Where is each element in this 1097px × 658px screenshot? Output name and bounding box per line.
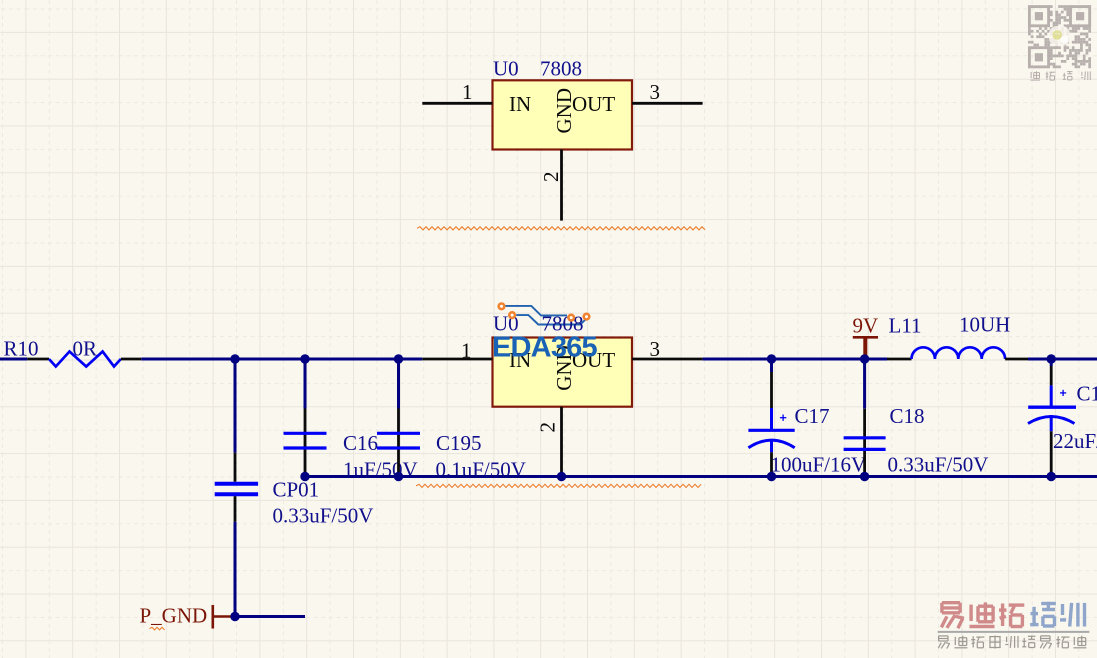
wire: U0 out to 9V node — [703, 358, 887, 361]
junction on main rail at C16 — [300, 354, 309, 363]
designator C19 — [1077, 382, 1097, 406]
svg-text:EDA365: EDA365 — [492, 332, 597, 364]
svg-text:CP01: CP01 — [273, 478, 320, 502]
regulator U1 (7808) top: body — [493, 80, 633, 149]
value 100uF/16V — [771, 452, 867, 476]
value 10UH — [959, 313, 1010, 337]
pin number 3 (bottom) — [650, 337, 661, 361]
watermark EDA365 text — [492, 332, 597, 364]
value 7808 (top) — [540, 57, 582, 81]
svg-text:0.33uF/50V: 0.33uF/50V — [888, 452, 989, 476]
pin name GND (bottom, rotated) — [552, 345, 576, 391]
svg-text:3: 3 — [650, 80, 661, 104]
pin 2 wire (GND, top) — [560, 150, 563, 221]
designator U0 (top) — [493, 57, 519, 81]
watermark QR code (WeChat) — [1028, 5, 1091, 68]
pin 2 wire (GND, bottom) — [560, 407, 563, 477]
designator L11 — [889, 313, 922, 337]
svg-text:3: 3 — [650, 337, 661, 361]
value 0.33uF/50V (C18) — [888, 452, 989, 476]
regulator U0 (7808) bottom: body — [493, 338, 633, 407]
svg-text:9V: 9V — [853, 313, 879, 337]
capacitor C18 — [844, 359, 886, 477]
junction on main rail at CP01 — [230, 354, 239, 363]
svg-text:IN: IN — [509, 92, 531, 116]
svg-text:OUT: OUT — [572, 92, 615, 116]
svg-text:10UH: 10UH — [959, 313, 1010, 337]
svg-text:C195: C195 — [436, 431, 482, 455]
svg-text:0.33uF/50V: 0.33uF/50V — [273, 504, 374, 528]
pin 3 wire (OUT, bottom) — [632, 358, 703, 361]
power port 9V — [853, 313, 879, 359]
value 22uF/25V — [1053, 429, 1097, 453]
inductor L11 — [887, 347, 1028, 359]
svg-text:L11: L11 — [889, 313, 922, 337]
junction on rail at C18 — [860, 472, 869, 481]
svg-text:C17: C17 — [795, 404, 830, 428]
svg-text:22uF/25V: 22uF/25V — [1053, 429, 1097, 453]
svg-text:2: 2 — [536, 422, 560, 433]
pin 1 wire (IN, top) — [422, 102, 492, 105]
value 1uF/50V — [343, 457, 418, 481]
capacitor C195 — [377, 359, 420, 477]
designator C16 — [343, 431, 378, 455]
wire: left edge to R10 — [0, 358, 27, 361]
pin number 1 (top) — [462, 80, 473, 104]
pin number 2 (top, rotated) — [539, 172, 563, 183]
pin 1 wire (IN, bottom) — [422, 358, 492, 361]
svg-text:7808: 7808 — [540, 57, 582, 81]
svg-text:C18: C18 — [890, 404, 925, 428]
pin name IN (bottom) — [509, 348, 531, 372]
svg-text:100uF/16V: 100uF/16V — [771, 452, 867, 476]
svg-text:U0: U0 — [493, 57, 519, 81]
junction on rail at C17 — [767, 472, 776, 481]
designator R10 — [4, 337, 39, 361]
pin number 2 (bottom, rotated) — [536, 422, 560, 433]
designator CP01 — [273, 478, 320, 502]
svg-text:1: 1 — [461, 338, 472, 362]
junction at C19 top — [1047, 354, 1056, 363]
watermark EDA365 logo traces — [505, 306, 587, 325]
designator C195 — [436, 431, 482, 455]
junction on rail at C19 — [1047, 472, 1056, 481]
value 0R — [73, 337, 98, 361]
pin name GND (top, rotated) — [552, 88, 576, 134]
resistor R10 — [27, 352, 141, 367]
ERC squiggle marker (top) — [417, 227, 705, 230]
capacitor C17 (polarized) — [748, 359, 794, 477]
junction on rail at C16 — [300, 472, 309, 481]
watermark logo underline — [938, 631, 1090, 633]
pin number 3 (top) — [650, 80, 661, 104]
pin number 1 (bottom) — [461, 338, 472, 362]
designator C18 — [890, 404, 925, 428]
watermark logo tagline 射频和天线设计专家 — [938, 636, 1086, 649]
svg-text:C19: C19 — [1077, 382, 1097, 406]
capacitor C19 (polarized) — [1028, 359, 1076, 477]
value 0.33uF/50V (CP01) — [273, 504, 374, 528]
junction on main rail at C195 — [394, 354, 403, 363]
svg-text:C16: C16 — [343, 431, 378, 455]
capacitor CP01 — [215, 359, 258, 617]
junction on rail at U0 GND — [557, 472, 566, 481]
junction on rail at C195 — [394, 472, 403, 481]
value 0.1uF/50V — [436, 457, 526, 481]
power port P_GND — [140, 604, 232, 629]
svg-text:P_GND: P_GND — [140, 604, 208, 628]
watermark EDA365 logo pads — [499, 304, 590, 321]
pin name IN (top) — [509, 92, 531, 116]
junction at P_GND / CP01 bottom — [230, 612, 239, 621]
designator U0 (bottom) — [493, 312, 519, 336]
pin name OUT (top) — [572, 92, 615, 116]
svg-text:2: 2 — [539, 172, 563, 183]
junction at C17 top — [767, 354, 776, 363]
lower GND rail wire — [305, 475, 1097, 478]
value 7808 (bottom) — [542, 312, 584, 336]
pin name OUT (bottom) — [572, 348, 615, 372]
junction at 9V / C18 top — [860, 354, 869, 363]
P_GND rail wire — [231, 615, 305, 618]
svg-text:R10: R10 — [4, 337, 39, 361]
svg-text:1: 1 — [462, 80, 473, 104]
ERC mini squiggle under P_GND — [150, 627, 165, 630]
wire: R10 to U0 pin1 (main rail) — [141, 358, 422, 361]
designator C17 — [795, 404, 830, 428]
capacitor C16 — [284, 359, 327, 477]
pin 3 wire (OUT, top) — [632, 102, 703, 105]
watermark QR caption 微信联系 — [1031, 71, 1091, 80]
ERC squiggle marker (bottom) — [416, 484, 701, 487]
watermark logo 易迪拓培训 — [941, 602, 1084, 628]
wire: L11 to C19 node and right edge — [1028, 358, 1097, 361]
